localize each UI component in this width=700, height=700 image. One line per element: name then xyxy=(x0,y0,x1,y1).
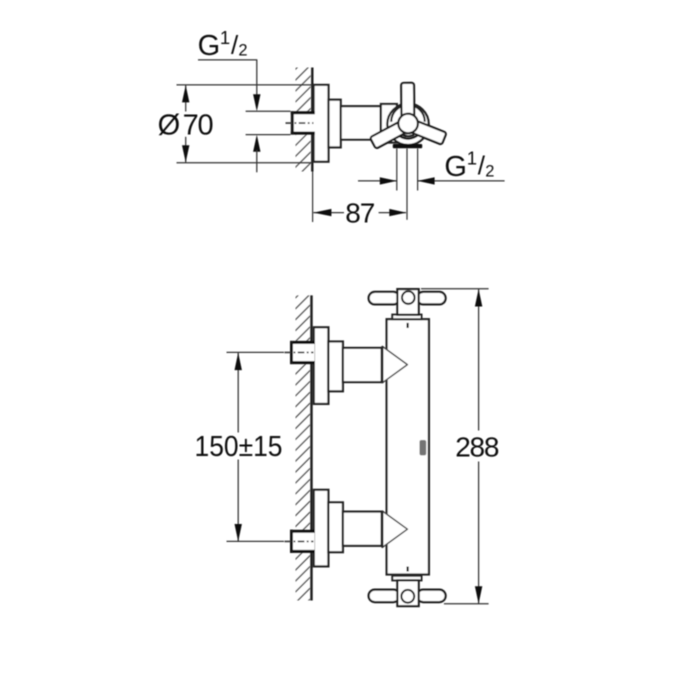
dim 87 arrow right xyxy=(389,209,406,216)
svg-text:Ø: Ø xyxy=(158,110,181,142)
dim 150 line upper segment xyxy=(237,353,239,433)
escutcheon flange (top view) xyxy=(314,85,329,162)
G1/2 lower tail xyxy=(256,150,258,172)
handle skirt dark lower arc xyxy=(395,131,421,138)
svg-text:2: 2 xyxy=(485,162,494,180)
handle rosette outer circle xyxy=(387,104,428,145)
dim 87 line right segment xyxy=(379,212,406,214)
dim Ø70 extension bottom xyxy=(177,162,313,164)
outlet extension line left xyxy=(396,149,398,191)
top handle hub xyxy=(397,289,418,315)
dim Ø70 arrow down xyxy=(182,145,189,162)
lower inlet nipple (front view) xyxy=(290,530,315,553)
bottom handle hub xyxy=(397,580,418,606)
dim G1/2 right: right line with left-pointing arrow xyxy=(418,180,505,182)
label G1/2 top leader vertical xyxy=(256,60,258,96)
label G1/2 right text xyxy=(444,148,494,183)
svg-text:G: G xyxy=(444,151,467,183)
connection pipe (top view) xyxy=(341,106,381,139)
dim 288 upper extension line xyxy=(421,288,489,290)
inlet nipple G1/2 (top view) xyxy=(291,111,315,134)
top temperature tick xyxy=(407,323,409,328)
valve bonnet black band xyxy=(393,144,422,148)
G1/2 arrow up to nipple bottom xyxy=(253,135,260,152)
upper nipple centerline (dash-dot) xyxy=(285,351,314,353)
dim Ø70 line lower segment xyxy=(185,137,187,163)
dim Ø70 extension top xyxy=(177,84,313,86)
handle rosette inner circle xyxy=(391,105,425,122)
upper flange step (front view) xyxy=(328,342,343,392)
dim 288 arrow up xyxy=(475,289,482,307)
nipple bottom extension line xyxy=(246,134,291,136)
dim 150 line lower segment xyxy=(237,460,239,542)
label G1/2 top leader horizontal xyxy=(198,59,257,61)
lower flange step (front view) xyxy=(328,502,343,552)
dim 288 arrow down xyxy=(475,586,482,604)
wall line (top view) xyxy=(311,68,313,172)
svg-text:87: 87 xyxy=(345,197,375,228)
flange step (top view) xyxy=(329,100,341,148)
G1/2 arrow down to nipple top xyxy=(253,94,260,111)
wall extension line down to 87 dim xyxy=(312,172,314,223)
top handle bar left xyxy=(369,292,400,305)
dim 288 lower extension line xyxy=(444,603,489,605)
dim 150 arrow down xyxy=(235,524,242,542)
dim 288 line lower segment xyxy=(478,462,480,604)
lower union cone xyxy=(382,511,407,547)
top cartridge nut xyxy=(392,315,421,320)
valve body (top view) xyxy=(381,104,397,143)
thermostat body (front view) xyxy=(387,319,429,574)
handle hub circle xyxy=(398,114,418,134)
outlet extension line right xyxy=(417,149,419,191)
handle spoke lower-right xyxy=(407,119,446,145)
bottom handle bar right xyxy=(417,590,446,603)
lower nipple centerline (dash-dot) xyxy=(285,540,314,542)
upper connection pipe (front view) xyxy=(343,348,382,382)
dim G1/2 right: left line with right-pointing arrow xyxy=(358,180,397,182)
dim Ø70 arrow up xyxy=(182,85,189,102)
bottom handle bar left xyxy=(369,590,400,603)
nipple centerline (dash-dot) xyxy=(286,122,314,124)
top handle bar right xyxy=(417,292,446,305)
label G1/2 top text xyxy=(198,27,248,62)
outlet centerline xyxy=(406,149,408,220)
svg-text:1: 1 xyxy=(467,148,477,169)
dim 150 upper extension line xyxy=(227,351,285,353)
svg-text:G: G xyxy=(198,30,221,62)
dim 87 arrow left xyxy=(313,209,331,216)
nipple top extension line xyxy=(246,110,291,112)
dim 87 line left segment xyxy=(313,212,344,214)
bottom cartridge nut xyxy=(392,576,421,581)
bottom handle hub circle xyxy=(401,590,414,603)
svg-text:288: 288 xyxy=(455,432,499,463)
dim Ø70 line upper segment xyxy=(185,85,187,112)
upper union cone xyxy=(382,346,407,382)
upper inlet nipple (front view) xyxy=(290,341,315,364)
handle spoke lower-left xyxy=(370,120,409,149)
dim 150 arrow up xyxy=(235,353,242,371)
wall hatching (top view) xyxy=(296,68,311,172)
top handle hub circle xyxy=(402,291,415,304)
dim 150 lower extension line xyxy=(227,540,285,542)
handle spoke up xyxy=(401,83,414,120)
upper escutcheon (front view) xyxy=(314,327,329,404)
handle cap small lower arc xyxy=(402,135,414,136)
svg-text:2: 2 xyxy=(238,42,247,60)
wall hatching (front view) xyxy=(296,295,311,600)
GROHE logo mark on body xyxy=(420,440,427,455)
lower connection pipe (front view) xyxy=(343,512,382,546)
lower escutcheon (front view) xyxy=(314,490,329,567)
bottom temperature tick xyxy=(407,567,409,572)
dim 288 line upper segment xyxy=(478,289,480,431)
wall line (front view) xyxy=(310,295,312,600)
svg-text:150±15: 150±15 xyxy=(195,431,283,463)
svg-text:70: 70 xyxy=(183,110,213,142)
svg-text:1: 1 xyxy=(220,27,230,48)
